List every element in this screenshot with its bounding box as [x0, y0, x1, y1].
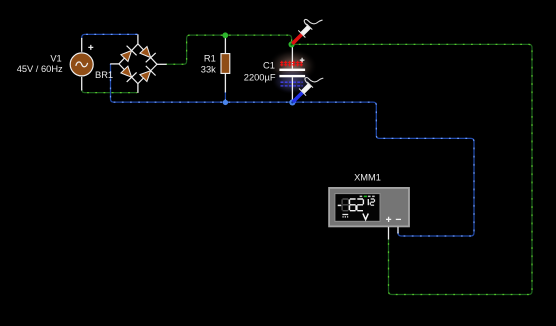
svg-text:V1: V1 — [50, 53, 61, 63]
diode D3 (left to bottom) — [121, 66, 137, 82]
XMM1 + terminal label — [386, 217, 391, 222]
wire R1 to bottom rail (blue) — [224, 92, 226, 103]
wire BR1 bottom lead — [137, 84, 139, 93]
wire BR1+ to node A (green) — [166, 35, 291, 64]
V1 polarity + — [88, 45, 93, 50]
wire BR1 top lead — [137, 34, 139, 44]
node: R1 top junction — [222, 32, 228, 38]
bridge rectifier BR1 outline — [119, 44, 157, 84]
svg-text:R1: R1 — [204, 54, 216, 64]
wire BR1- to XMM1 - (blue) — [111, 64, 475, 236]
wire XMM1 - stub — [397, 227, 399, 233]
svg-text:C1: C1 — [263, 60, 275, 70]
C1 positive charge marks — [280, 61, 303, 67]
wire V1 top lead — [81, 38, 83, 52]
svg-text:XMM1: XMM1 — [354, 173, 381, 183]
C1 negative charge marks — [281, 81, 303, 83]
capacitor C1 glow — [268, 49, 318, 84]
wire V1+ to BR1 top (blue) — [82, 34, 138, 38]
svg-text:2200µF: 2200µF — [244, 72, 276, 82]
probe blue (negative) — [293, 77, 323, 101]
diode D2 (top to right) — [140, 47, 156, 63]
capacitor C1 plates — [279, 69, 305, 71]
wire BR1 left lead — [110, 63, 119, 65]
wire V1- to BR1 bottom (green) — [82, 90, 138, 93]
svg-text:45V / 60Hz: 45V / 60Hz — [17, 64, 63, 74]
XMM1 bar indicator — [360, 195, 375, 197]
XMM1 V unit — [363, 214, 368, 220]
XMM1 - terminal label — [396, 218, 401, 220]
C1 plus sign — [300, 58, 305, 63]
XMM1 reading -862 12 — [338, 204, 342, 206]
resistor R1 body — [221, 54, 230, 74]
wire XMM1 + stub — [388, 227, 390, 240]
wire V1 bottom lead — [81, 77, 83, 91]
svg-text:BR1: BR1 — [95, 70, 113, 80]
capacitor C1 leads — [291, 44, 293, 68]
AC source V1 — [70, 53, 93, 76]
node: R1 bottom junction — [223, 100, 228, 105]
multimeter XMM1 body — [329, 188, 409, 227]
diode D4 (bottom to right) — [140, 66, 156, 82]
resistor R1 leads — [224, 35, 226, 53]
svg-text:33k: 33k — [201, 65, 216, 75]
diode D1 (left to top) — [121, 46, 137, 62]
probe red (positive) — [292, 19, 322, 43]
wire BR1 right lead — [157, 63, 167, 65]
XMM1 display — [335, 194, 380, 222]
node: C1 bottom junction — [289, 99, 295, 105]
XMM1 DC indicator — [342, 214, 348, 216]
node A: C1 top junction — [289, 41, 295, 47]
wire node A to XMM1 + (green) — [292, 44, 532, 294]
